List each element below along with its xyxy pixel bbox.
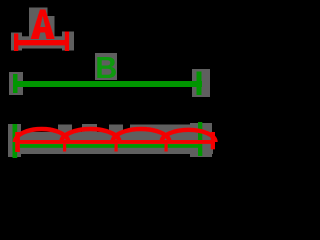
halo: arc4 top [172, 125, 192, 133]
halo: arc2 peak [82, 124, 97, 133]
arc 2 [61, 129, 119, 142]
halo: B-line left tick [9, 72, 23, 95]
halo: letter B [95, 53, 117, 80]
arc 3 [113, 129, 170, 142]
tick B right [197, 72, 202, 96]
label A [31, 10, 55, 40]
halo: junction 1 [58, 125, 72, 134]
tick A right [65, 32, 69, 52]
svg-text:B: B [95, 51, 117, 85]
junction dot 2 [115, 144, 118, 152]
dimension line A [14, 40, 69, 45]
junction dot 3 [165, 144, 168, 152]
dimension line B [14, 81, 202, 87]
halo: A-line right tick [62, 32, 74, 51]
bottom tick green right [198, 122, 202, 156]
arc 1 [15, 129, 68, 142]
red measure line (bottom) [16, 140, 213, 144]
bottom tick red left [15, 132, 20, 152]
halo: B-line right tick [192, 69, 210, 97]
halo: arc3 peak [130, 125, 174, 133]
halo: junction 2 [109, 125, 123, 134]
halo: A-line band [22, 36, 62, 48]
halo: bottom band [8, 132, 213, 154]
arc 4 [162, 130, 216, 142]
baseline green (bottom) [14, 144, 202, 148]
tick A left [14, 34, 18, 52]
halo: A-line left tick [11, 33, 22, 51]
bottom tick red right [211, 132, 215, 149]
junction dot 1 [63, 144, 66, 152]
halo: junction 3 [159, 125, 173, 134]
halo: letter A main [29, 8, 48, 39]
halo: letter A right [48, 16, 55, 39]
tick B left [13, 74, 18, 93]
label A counter [40, 16, 45, 27]
halo: bottom right block [190, 123, 212, 157]
halo: bottom left block [8, 124, 21, 157]
bottom tick green left [13, 124, 18, 158]
